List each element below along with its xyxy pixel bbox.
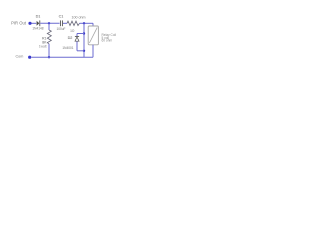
capacitor C1 [60, 20, 62, 26]
node Com terminal dot [28, 56, 31, 59]
svg-text:PIR Out: PIR Out [11, 21, 27, 26]
wire D1 cathode to node A [40, 22, 59, 24]
svg-text:D1: D1 [36, 15, 41, 19]
background [0, 0, 120, 74]
wire PIR Out to D1 anode [32, 22, 37, 24]
wire tap to D2 cathode [77, 33, 84, 35]
svg-text:100uF: 100uF [56, 27, 65, 31]
resistor R1 (vertical zigzag) [47, 30, 51, 44]
wire node A down to R1 [48, 23, 50, 30]
node PIR Out terminal dot [28, 22, 31, 25]
svg-text:D2: D2 [68, 36, 73, 40]
wire relay coil bottom down to rail corner [92, 45, 94, 57]
junction dot at diode top tap [83, 32, 85, 34]
svg-text:1watt: 1watt [39, 44, 47, 48]
diode D2 (cathode up) [75, 36, 79, 41]
svg-text:1N4148: 1N4148 [32, 26, 43, 30]
node B junction dot [83, 22, 85, 24]
junction dot at diode bottom tap [83, 50, 85, 52]
wire node B down to rail [83, 23, 85, 57]
wire C1 to R2 [63, 22, 67, 24]
svg-text:60 ohm: 60 ohm [102, 39, 113, 43]
svg-text:C1: C1 [59, 15, 64, 19]
wire common rail [32, 56, 94, 58]
wire bottom tap to node [77, 50, 84, 52]
svg-text:100 ohm: 100 ohm [72, 16, 86, 20]
svg-text:Com: Com [16, 54, 24, 58]
relay RL1 coil box [88, 26, 98, 45]
node A junction dot [48, 22, 50, 24]
wire D2 anode down to bottom tap [76, 41, 78, 50]
resistor R2 (horizontal zigzag) [67, 21, 80, 25]
wire corner down into relay coil top [92, 23, 94, 26]
relay coil diagonal [89, 28, 97, 43]
junction dot R1 on rail [48, 56, 50, 58]
wire R1 bottom to common rail [48, 44, 50, 57]
svg-text:1O: 1O [70, 29, 75, 33]
diode D1 [37, 20, 40, 26]
wire R2 to relay top corner [80, 22, 94, 24]
svg-text:1N4001: 1N4001 [62, 46, 73, 50]
wire down to D2 [76, 34, 78, 37]
